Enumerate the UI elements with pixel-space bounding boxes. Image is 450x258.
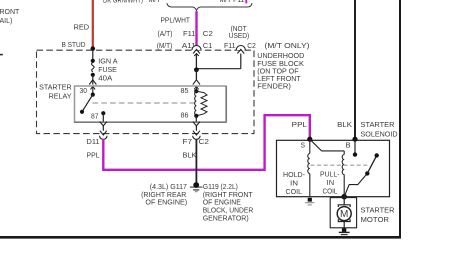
- svg-text:F7: F7: [183, 139, 193, 146]
- svg-text:(RIGHT REAR: (RIGHT REAR: [141, 192, 186, 199]
- svg-text:PPL/WHT: PPL/WHT: [161, 17, 191, 24]
- svg-text:PULL-: PULL-: [320, 171, 340, 178]
- svg-text:UNDERHOOD: UNDERHOOD: [257, 53, 304, 60]
- svg-text:S: S: [301, 143, 306, 150]
- svg-text:F11: F11: [183, 31, 196, 38]
- svg-text:BLK: BLK: [337, 122, 352, 129]
- svg-text:COIL: COIL: [323, 188, 338, 195]
- svg-text:PPL: PPL: [292, 122, 307, 129]
- svg-text:B STUD: B STUD: [62, 42, 86, 49]
- svg-text:(ON TOP OF: (ON TOP OF: [257, 68, 298, 75]
- svg-text:(A/T): (A/T): [158, 31, 173, 38]
- svg-text:LEFT FRONT: LEFT FRONT: [257, 76, 301, 83]
- svg-text:C2: C2: [199, 139, 210, 146]
- svg-text:30: 30: [80, 88, 88, 95]
- svg-text:C1: C1: [203, 43, 213, 50]
- svg-text:USED): USED): [229, 33, 250, 40]
- svg-text:87: 87: [91, 114, 99, 121]
- svg-text:FENDER): FENDER): [257, 84, 291, 91]
- svg-text:GENERATOR): GENERATOR): [203, 215, 249, 222]
- svg-text:PPL: PPL: [87, 153, 100, 160]
- svg-text:SOLENOID: SOLENOID: [361, 131, 398, 138]
- svg-text:M/T F11: M/T F11: [220, 0, 245, 4]
- svg-text:FUSE: FUSE: [98, 67, 117, 74]
- svg-text:85: 85: [181, 88, 189, 95]
- svg-text:STARTER: STARTER: [361, 208, 395, 215]
- svg-text:STARTER: STARTER: [39, 84, 71, 91]
- svg-text:C2: C2: [247, 43, 256, 50]
- svg-text:C2: C2: [203, 31, 213, 38]
- svg-text:BLOCK, UNDER: BLOCK, UNDER: [203, 208, 254, 215]
- svg-text:F11: F11: [224, 43, 236, 50]
- svg-text:HOLD-: HOLD-: [283, 172, 306, 179]
- svg-text:M/T: M/T: [149, 0, 162, 4]
- svg-text:IN: IN: [290, 181, 298, 188]
- svg-text:40A: 40A: [98, 75, 112, 82]
- svg-text:MOTOR: MOTOR: [361, 217, 390, 224]
- svg-text:IN: IN: [327, 180, 335, 187]
- svg-text:AIL): AIL): [0, 18, 12, 25]
- svg-text:G119 (2.2L): G119 (2.2L): [203, 184, 238, 191]
- svg-text:DK GRN/WHT): DK GRN/WHT): [103, 0, 143, 5]
- svg-text:(RIGHT FRONT: (RIGHT FRONT: [203, 192, 254, 199]
- svg-text:OF ENGINE: OF ENGINE: [203, 200, 242, 207]
- svg-text:RONT: RONT: [0, 9, 20, 16]
- svg-text:86: 86: [181, 113, 189, 120]
- svg-text:D11: D11: [87, 139, 100, 146]
- svg-text:FUSE BLOCK: FUSE BLOCK: [257, 61, 304, 68]
- svg-text:OF ENGINE): OF ENGINE): [145, 200, 187, 207]
- svg-text:(M/T): (M/T): [157, 43, 173, 50]
- svg-text:IGN A: IGN A: [98, 58, 118, 65]
- svg-text:RED: RED: [74, 25, 90, 32]
- svg-text:M: M: [340, 209, 348, 220]
- svg-text:BLK: BLK: [183, 153, 197, 160]
- svg-text:B: B: [346, 143, 351, 150]
- svg-text:(4.3L) G117: (4.3L) G117: [150, 184, 187, 191]
- svg-text:COIL: COIL: [286, 189, 303, 196]
- svg-text:STARTER: STARTER: [361, 122, 395, 129]
- svg-text:RELAY: RELAY: [49, 94, 72, 101]
- svg-text:(M/T ONLY): (M/T ONLY): [265, 43, 310, 50]
